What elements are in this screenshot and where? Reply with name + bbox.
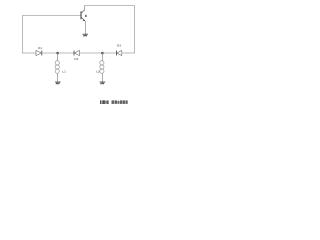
wire right vertical bbox=[133, 6, 135, 54]
wire node A to D2 bbox=[58, 52, 74, 54]
svg-text:D1: D1 bbox=[38, 46, 42, 50]
wire base horizontal bbox=[22, 15, 81, 17]
label L2 bbox=[96, 70, 100, 74]
svg-text:L1: L1 bbox=[62, 70, 66, 74]
label D2 bbox=[74, 57, 78, 61]
wire left to D1 bbox=[22, 52, 36, 54]
inductor L2 bbox=[100, 61, 104, 74]
diode D1 bbox=[36, 50, 42, 55]
ground below L1 bbox=[55, 82, 61, 84]
wire D3 to right corner bbox=[122, 52, 135, 54]
label Q1 mark bbox=[85, 15, 86, 17]
wire node A down to L1 bbox=[57, 53, 59, 61]
label D1 bbox=[38, 46, 42, 50]
ground at emitter bbox=[83, 34, 89, 36]
wire L2 to ground bbox=[101, 73, 103, 82]
wire left vertical bbox=[21, 15, 23, 53]
wire node B to D3 bbox=[103, 52, 117, 54]
transistor Q1 bbox=[81, 10, 85, 21]
label L1 bbox=[62, 70, 66, 74]
inductor L1 bbox=[55, 61, 59, 74]
caption figure title bbox=[100, 100, 128, 104]
wire top horizontal bbox=[85, 5, 135, 7]
diode D2 bbox=[74, 50, 79, 55]
svg-text:D2: D2 bbox=[74, 57, 78, 61]
wire emitter vertical bbox=[84, 21, 86, 34]
node B junction dot bbox=[101, 52, 104, 55]
label D3 bbox=[117, 44, 121, 48]
node A junction dot bbox=[56, 52, 59, 55]
wire L1 to ground bbox=[57, 73, 59, 82]
wire collector stub bbox=[84, 5, 86, 10]
wire node B down to L2 bbox=[101, 53, 103, 61]
wire D1 to node A bbox=[42, 52, 58, 54]
ground below L2 bbox=[100, 82, 106, 84]
svg-text:D3: D3 bbox=[117, 44, 121, 48]
svg-text:L2: L2 bbox=[96, 70, 100, 74]
wire D2 to node B bbox=[79, 52, 102, 54]
diode D3 bbox=[116, 50, 121, 55]
